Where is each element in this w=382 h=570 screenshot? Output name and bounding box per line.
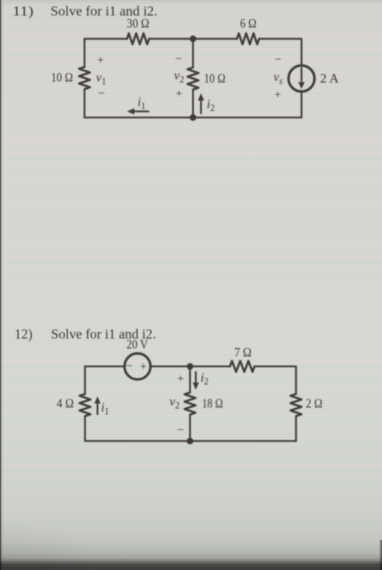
wire: circuit 1 right segment below current source [301,92,303,118]
current arrow i1 (circuit 2, pointing up, right of 4 ohm) [97,403,99,415]
resistor 18 ohm (R8, middle branch circuit 2) [185,393,196,415]
resistor 4 ohm (R5, left branch circuit 2) [80,394,91,416]
resistor 10 ohm (R3, left branch circuit 1) [79,67,90,89]
svg-text:i1: i1 [101,400,109,416]
svg-text:2 A: 2 A [320,72,339,86]
svg-text:−: − [175,52,182,66]
resistor 6 ohm (R2, top right of circuit 1) [237,33,259,44]
wire: circuit 1 top-left segment [85,38,128,40]
svg-text:v2: v2 [174,69,184,85]
svg-text:10 Ω: 10 Ω [51,70,73,84]
wire: circuit 1 bottom segment [85,117,302,119]
wire: circuit 2 top segment voltage source to node [151,365,191,367]
svg-text:v2: v2 [170,395,180,411]
current arrow i2 (circuit 2, pointing down, below node) [195,372,197,383]
svg-text:+: + [97,52,104,66]
svg-text:−: − [275,52,282,66]
svg-text:+: + [176,86,183,100]
wire: circuit 1 middle branch bottom segment [192,90,194,118]
svg-text:6 Ω: 6 Ω [240,16,257,30]
wire: circuit 2 right bottom segment [295,416,297,441]
svg-text:i2: i2 [201,371,209,387]
junction node: circuit 1 middle top [190,36,197,43]
resistor 7 ohm (R6, top branch circuit 2) [230,361,255,372]
wire: circuit 2 middle branch top segment [189,366,191,392]
svg-text:−: − [126,358,133,372]
current source arrow (pointing down) [301,68,303,81]
wire: circuit 1 left bottom segment [84,89,86,117]
wire: circuit 1 top-right segment and right drop to current source [259,39,302,66]
svg-text:11): 11) [13,5,34,20]
wire: circuit 1 top-middle segment [149,38,237,40]
wire: circuit 1 middle branch top segment [192,39,194,68]
svg-text:+: + [177,371,184,385]
junction node: circuit 2 middle top [187,363,194,370]
wire: circuit 2 middle branch bottom segment [189,415,191,441]
svg-text:−: − [177,422,184,436]
svg-text:7 Ω: 7 Ω [234,346,251,360]
svg-text:10 Ω: 10 Ω [204,71,226,85]
wire: circuit 2 left top segment [84,366,86,394]
svg-text:vs: vs [274,70,284,86]
svg-text:i2: i2 [207,97,215,113]
resistor 30 ohm (R1, top left of circuit 1) [127,33,149,44]
wire: circuit 2 top segment node to 7 ohm [190,365,230,367]
wire: circuit 1 left top segment [84,39,86,67]
svg-text:30 Ω: 30 Ω [127,17,150,31]
wire: circuit 2 bottom segment [85,440,296,442]
svg-text:v1: v1 [96,71,106,87]
junction node: circuit 2 middle bottom [187,438,194,445]
svg-text:+: + [274,87,281,101]
resistor 10 ohm (R4, middle branch circuit 1) [188,68,199,90]
svg-text:−: − [98,86,105,100]
svg-text:4 Ω: 4 Ω [57,397,74,411]
junction node: circuit 1 middle bottom [190,114,197,121]
svg-text:+: + [140,359,147,373]
svg-text:i1: i1 [138,95,146,111]
current arrow i2 (circuit 1, middle branch, pointing up) [200,100,202,113]
svg-text:20 V: 20 V [127,337,149,351]
svg-text:12): 12) [15,328,33,343]
voltage source 20 V (circle) [125,353,151,379]
wire: circuit 2 left bottom segment [84,416,86,441]
current source 2 A (circle) [289,66,315,92]
svg-text:18 Ω: 18 Ω [202,396,223,410]
resistor 2 ohm (R7, right branch circuit 2) [291,394,302,416]
wire: circuit 2 top-right segment [255,366,297,394]
svg-text:2 Ω: 2 Ω [306,396,323,410]
current arrow i1 (circuit 1, bottom wire, pointing left) [134,110,149,112]
wire: circuit 2 top segment to voltage source [85,365,125,367]
